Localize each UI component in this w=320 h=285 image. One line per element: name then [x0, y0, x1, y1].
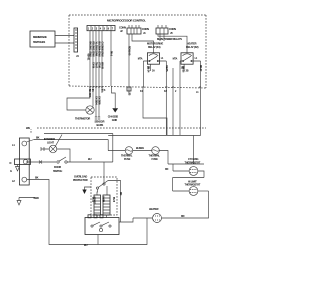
svg-text:BK: BK	[36, 136, 40, 140]
svg-text:G: G	[10, 169, 12, 173]
drive motor M1 dashed enclosure	[91, 177, 117, 215]
svg-text:FUSE: FUSE	[152, 157, 159, 161]
svg-text:YL-4: YL-4	[91, 197, 94, 202]
console/cabinet dashed separator with WH label	[25, 124, 206, 133]
thermistor RT1 with lead loop	[67, 93, 94, 121]
svg-text:GND: GND	[112, 118, 117, 122]
svg-text:GY-2505 52AW: GY-2505 52AW	[100, 42, 103, 58]
svg-text:YL-2503 32AW: YL-2503 32AW	[94, 42, 97, 57]
svg-text:PROTECTOR: PROTECTOR	[73, 178, 88, 182]
power cord terminal block TB1	[19, 138, 29, 185]
label OVERLOAD PROTECTOR	[73, 175, 88, 182]
label MAIN POWER RELAYS	[157, 37, 182, 41]
svg-text:2B: 2B	[127, 93, 130, 96]
wire connector J1 to relay K1	[129, 34, 154, 93]
svg-text:PK-6: PK-6	[109, 51, 112, 57]
motor start winding	[91, 195, 101, 215]
svg-text:BK: BK	[35, 176, 39, 180]
terminal L2	[12, 177, 27, 183]
wire membrane switches to connector J4	[55, 36, 74, 44]
svg-text:CONN: CONN	[169, 27, 176, 31]
svg-text:WH-01: WH-01	[86, 54, 89, 62]
wire heater line RD to hi-limit	[133, 191, 209, 218]
svg-text:2A: 2A	[152, 70, 155, 73]
svg-text:BU-5: BU-5	[112, 197, 115, 203]
heater element HE1	[149, 207, 162, 223]
svg-text:RD-37: RD-37	[199, 65, 202, 72]
label MICROPROCESSOR CONTROL	[107, 19, 146, 23]
svg-text:RD: RD	[119, 192, 122, 196]
board edge terminal stubs with pin labels	[88, 87, 201, 98]
svg-text:THERMAL: THERMAL	[121, 154, 133, 158]
wire L2 BK bottom run to heater	[27, 176, 147, 248]
interior light DS1	[41, 135, 70, 163]
moisture sensor bars	[94, 93, 104, 127]
svg-text:BARS: BARS	[97, 123, 104, 127]
svg-text:MAIN: MAIN	[101, 197, 104, 203]
svg-text:GY-2604: GY-2604	[94, 96, 97, 105]
svg-text:LIGHT: LIGHT	[47, 141, 54, 145]
svg-text:MICROPROCESSOR CONTROL: MICROPROCESSOR CONTROL	[107, 19, 146, 23]
wire motor switch box to heater line	[119, 218, 133, 222]
membrane switches S1	[30, 31, 55, 47]
svg-text:DOOR: DOOR	[54, 165, 61, 169]
svg-text:RELAY (K1): RELAY (K1)	[148, 45, 161, 49]
wire K1 contact terminals down	[143, 61, 168, 135]
svg-text:HEATER: HEATER	[187, 42, 197, 46]
svg-text:THERMISTOR: THERMISTOR	[75, 117, 90, 121]
wire L1 BK feed to thermal fuse	[27, 136, 109, 151]
wire door switch to motor node BU	[67, 157, 113, 162]
connector J4 ribbon header	[74, 28, 79, 58]
svg-text:MOTOR DRIVE: MOTOR DRIVE	[147, 42, 164, 46]
wire motor switch box to L2 run	[97, 235, 99, 245]
svg-text:WH: WH	[26, 126, 30, 130]
connector J1 pin header	[127, 25, 149, 35]
svg-text:CONN: CONN	[119, 26, 126, 30]
connector J5 pin header	[156, 25, 176, 35]
door switch SW1	[26, 157, 67, 173]
svg-text:WH-09: WH-09	[100, 62, 103, 70]
wire node to motor entry	[103, 162, 105, 183]
overload protector switch contacts	[96, 181, 108, 196]
svg-text:RD/WH-9: RD/WH-9	[127, 46, 130, 56]
svg-text:MEMBRANE: MEMBRANE	[33, 35, 47, 39]
wire thermal fuse feed	[108, 150, 125, 152]
svg-text:BU/WH: BU/WH	[136, 146, 144, 150]
wire lamp top feed and drop to door switch node	[44, 134, 113, 163]
wire connector J5 to relay K2	[158, 34, 187, 53]
wire K2 contact terminals down	[180, 61, 202, 136]
svg-text:RD: RD	[181, 214, 185, 218]
microprocessor control board dashed enclosure	[69, 15, 206, 88]
svg-text:SWITCHES: SWITCHES	[33, 40, 46, 44]
svg-text:VT-08: VT-08	[97, 62, 100, 68]
svg-text:OR-35: OR-35	[165, 65, 168, 72]
svg-text:2A: 2A	[91, 89, 94, 92]
relay K2 heater (contact + coil)	[173, 42, 201, 73]
connector J2 pin header, pins 1-7	[87, 26, 126, 34]
svg-text:BK-36: BK-36	[181, 66, 184, 73]
chassis ground lower-left GND	[17, 196, 39, 205]
svg-text:BU-2504 42AW: BU-2504 42AW	[97, 42, 100, 58]
chassis ground at motor	[82, 187, 91, 194]
chassis ground (control board)	[108, 86, 119, 122]
svg-text:RD-2502 22AW: RD-2502 22AW	[91, 42, 94, 58]
motor switch terminals 1 2 3	[88, 215, 103, 218]
svg-text:MAIN POWER RELAYS: MAIN POWER RELAYS	[157, 37, 182, 41]
svg-text:2B: 2B	[186, 70, 189, 73]
ground G below neutral	[10, 165, 20, 174]
wire relay coil return stub	[172, 68, 174, 135]
wire heater drop from overload switch RD	[108, 181, 122, 223]
svg-text:BK-34: BK-34	[147, 66, 150, 73]
thermal fuse F1	[121, 147, 133, 161]
wire harness from connector J2 pins down with colour labels	[86, 31, 130, 93]
svg-text:THERMOSTAT: THERMOSTAT	[185, 183, 201, 187]
svg-text:GY-2605: GY-2605	[97, 96, 100, 105]
terminal L1	[12, 141, 27, 147]
relay K1 motor drive (contact + coil)	[138, 42, 167, 73]
svg-text:MTA: MTA	[138, 58, 143, 61]
motor main winding	[101, 195, 115, 215]
svg-text:RD: RD	[165, 168, 169, 171]
svg-text:BK-2501: BK-2501	[88, 89, 91, 98]
svg-text:INTERIOR: INTERIOR	[44, 137, 55, 141]
cycling thermostat TS1	[165, 157, 204, 178]
svg-text:CONN: CONN	[142, 27, 149, 31]
svg-text:FUSE: FUSE	[124, 157, 131, 161]
svg-text:GND: GND	[34, 196, 39, 200]
hi-limit thermostat TS2	[173, 178, 209, 196]
svg-text:BU: BU	[88, 157, 92, 161]
wire relay K1 output elbow to motor feed node	[143, 87, 167, 135]
wire bus junction to cycling thermostat feed	[193, 136, 195, 165]
wire thermal fuse output to cycling thermostat loop	[159, 151, 168, 165]
thermal fuse F2	[149, 147, 161, 161]
terminal N (neutral lug)	[10, 159, 31, 165]
motor winding leads to switch box	[97, 215, 107, 218]
motor centrifugal switch box	[85, 218, 119, 235]
svg-text:MTA: MTA	[173, 58, 178, 61]
wire power bus horizontal	[108, 135, 200, 137]
svg-text:SWITCH: SWITCH	[53, 169, 62, 173]
svg-text:BU: BU	[84, 243, 88, 247]
svg-text:TN-07: TN-07	[94, 62, 97, 69]
svg-text:THERMAL: THERMAL	[149, 154, 161, 158]
svg-text:RELAY (K2): RELAY (K2)	[186, 45, 199, 49]
svg-text:GY-06: GY-06	[91, 62, 94, 69]
svg-text:HEATER: HEATER	[149, 207, 159, 211]
wire between thermal fuses BU/WH	[133, 146, 152, 151]
